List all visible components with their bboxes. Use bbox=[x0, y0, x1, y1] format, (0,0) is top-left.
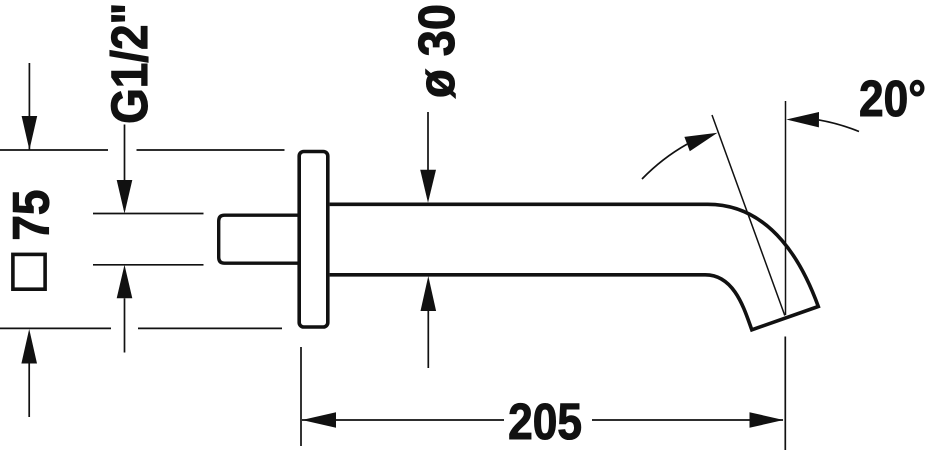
dimension 75: lower tail line bbox=[28, 364, 30, 418]
dimension 75: upper arrowhead bbox=[22, 116, 38, 150]
svg-text:20°: 20° bbox=[859, 71, 926, 128]
dimension 75: square symbol bbox=[13, 254, 45, 289]
wall flange bbox=[299, 152, 328, 328]
dimension 205: dimension line left part bbox=[302, 419, 504, 421]
angle reference: vertical line upper part bbox=[785, 101, 787, 315]
dimension G1/2: bottom extension line bbox=[93, 264, 204, 266]
dimension 75: upper tail line bbox=[28, 63, 30, 150]
spout body outline bbox=[330, 204, 819, 329]
dimension 205: left arrowhead bbox=[302, 412, 336, 428]
dimension G1/2: lower tail line bbox=[124, 298, 126, 352]
svg-text:G1/2": G1/2" bbox=[102, 3, 159, 124]
svg-text:75: 75 bbox=[3, 190, 60, 241]
svg-text:ø 30: ø 30 bbox=[409, 4, 465, 98]
dimension G1/2: upper leader line bbox=[124, 125, 126, 211]
svg-text:205: 205 bbox=[508, 394, 582, 451]
dimension diameter 30: lower tail line bbox=[427, 311, 429, 368]
dimension G1/2: upper arrowhead bbox=[117, 180, 133, 214]
angle 20: left arc segment bbox=[642, 144, 687, 179]
dimension 205: dimension line right part bbox=[592, 419, 783, 421]
dimension 205: right arrowhead bbox=[750, 412, 784, 428]
dimension 205: left extension line bbox=[300, 347, 302, 446]
angle 20: right arc arrowhead bbox=[786, 112, 819, 127]
inlet connector (G1/2 thread stub) bbox=[219, 215, 298, 263]
angle reference: vertical line lower part (205 right extension) bbox=[784, 337, 786, 451]
angle 20: right arc segment bbox=[819, 120, 859, 132]
dimension 75: lower arrowhead bbox=[21, 329, 37, 364]
dimension G1/2: lower arrowhead bbox=[117, 265, 133, 299]
dimension diameter 30: upper leader line bbox=[427, 112, 429, 199]
angle reference: slanted spout axis line bbox=[712, 115, 785, 316]
dimension 75: top extension line bbox=[0, 149, 285, 151]
dimension diameter 30: lower arrowhead bbox=[421, 276, 437, 311]
dimension diameter 30: upper arrowhead bbox=[420, 170, 436, 203]
dimension 75: bottom extension line bbox=[0, 327, 282, 329]
dimension G1/2: top extension line bbox=[93, 213, 204, 215]
angle 20: left arc arrowhead bbox=[684, 133, 717, 152]
